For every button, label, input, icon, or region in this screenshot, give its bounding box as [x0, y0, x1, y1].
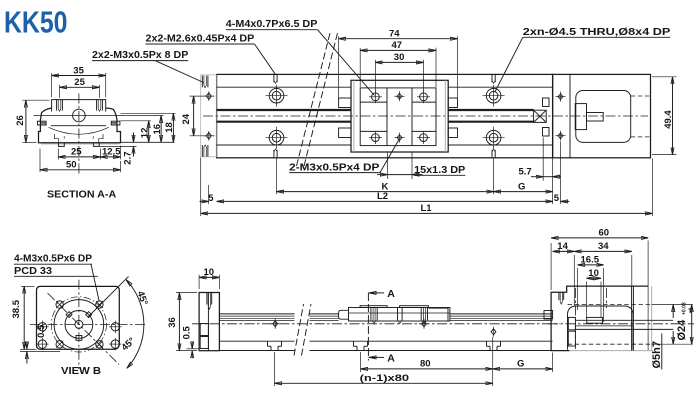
bolt hole TL	[56, 301, 63, 308]
M4 hole top-right	[417, 90, 430, 103]
svg-text:74: 74	[389, 29, 400, 40]
svg-text:38.5: 38.5	[11, 299, 22, 318]
svg-text:16: 16	[152, 124, 163, 135]
svg-text:25: 25	[71, 147, 82, 158]
coupling block top	[568, 317, 575, 329]
label PCD 33	[14, 265, 98, 277]
centerline	[203, 115, 648, 117]
bearing tab bottom	[543, 128, 550, 137]
carriage profile	[339, 306, 450, 321]
svg-text:+0.03: +0.03	[682, 302, 688, 315]
label 2xn holes	[495, 26, 671, 92]
motor block outline	[551, 286, 648, 351]
dim G plan	[494, 181, 553, 192]
svg-text:L2: L2	[377, 191, 388, 202]
inner bore circle	[65, 311, 93, 339]
svg-text:+0: +0	[688, 308, 694, 314]
body outline	[217, 74, 553, 157]
carriage flared body	[39, 108, 121, 143]
side hole right	[109, 321, 121, 333]
dim 49.4	[652, 77, 677, 155]
label 2-M3 carriage	[289, 140, 399, 174]
side hole bottom-right	[109, 338, 121, 350]
dim 36	[167, 293, 197, 351]
svg-text:50: 50	[66, 160, 77, 171]
M2.6 tick top-left	[274, 74, 277, 83]
motor cavity	[568, 306, 634, 350]
svg-text:2.7: 2.7	[123, 151, 134, 164]
motor block	[553, 74, 651, 157]
svg-text:KK50: KK50	[4, 6, 68, 40]
horizontal centerline	[34, 115, 162, 117]
base bottom line	[219, 350, 294, 352]
bolt mark top	[556, 92, 566, 102]
tap left on plate	[57, 100, 63, 112]
motor phantom bottom	[569, 350, 653, 352]
svg-text:35: 35	[73, 65, 84, 76]
svg-text:A: A	[387, 353, 395, 365]
svg-text:2-M3x0.5Px4 DP: 2-M3x0.5Px4 DP	[289, 161, 379, 173]
svg-text:0.5: 0.5	[36, 324, 47, 338]
dim 34	[574, 241, 632, 286]
vertical centerline	[78, 94, 80, 175]
bolt centerline 2	[606, 288, 608, 308]
left end tap top	[202, 76, 208, 88]
ext lines bottom	[276, 159, 278, 195]
carriage side tab bottom-right	[448, 128, 457, 138]
dim 38.5	[11, 286, 35, 349]
svg-text:47: 47	[392, 40, 403, 51]
bolt mark side 1	[270, 319, 280, 329]
tap right on plate	[97, 100, 103, 112]
foot 3	[487, 341, 501, 350]
svg-text:30: 30	[394, 52, 405, 63]
center hole	[75, 320, 83, 328]
dim 2.7	[99, 133, 136, 165]
svg-text:60: 60	[599, 228, 610, 239]
foot 2	[354, 341, 368, 350]
dim 5.7	[519, 138, 562, 181]
dim L2	[217, 191, 553, 202]
dim 74	[339, 29, 458, 98]
bolt hole BR	[96, 341, 103, 348]
dim 25 top	[60, 77, 100, 98]
foot 1	[268, 341, 282, 350]
motor flange lines	[631, 286, 633, 351]
svg-text:2x2-M2.6x0.45Px4 DP: 2x2-M2.6x0.45Px4 DP	[146, 33, 255, 45]
dim 16.5	[578, 255, 604, 322]
carriage sub lines	[360, 101, 387, 103]
bore notch right	[86, 312, 92, 318]
hole circle top-right	[483, 85, 505, 107]
svg-text:4-M3x0.5Px6 DP: 4-M3x0.5Px6 DP	[14, 253, 92, 265]
svg-text:0.5: 0.5	[181, 325, 192, 339]
motor block inner line	[569, 74, 571, 157]
M4 hole bottom-right	[417, 131, 430, 144]
bolt centerline	[574, 288, 576, 349]
block square bottom	[200, 337, 208, 349]
rail step right	[99, 134, 103, 143]
shaft block	[575, 104, 586, 130]
screw circle	[73, 109, 86, 122]
dim 0.5 viewb	[20, 324, 60, 364]
M2.6 tick bottom-right	[492, 149, 495, 158]
carriage top plate	[52, 100, 106, 112]
base gray surface	[41, 143, 120, 145]
diagonal centerline	[48, 293, 120, 365]
svg-text:80: 80	[420, 359, 431, 370]
svg-text:5.7: 5.7	[519, 167, 532, 178]
dim 30	[375, 52, 423, 91]
M4 hole bottom-left	[369, 131, 382, 144]
carriage screws side	[371, 308, 428, 324]
dims 12 16 18	[121, 113, 176, 142]
svg-text:SECTION A-A: SECTION A-A	[47, 189, 117, 201]
flange plate	[37, 286, 120, 349]
label 2x2-M3	[92, 49, 204, 82]
rail step left	[54, 134, 58, 143]
bolt mark bottom	[556, 131, 566, 141]
side ear right	[111, 121, 120, 125]
dim 12.5	[100, 146, 121, 160]
angle 45 arc	[126, 280, 144, 369]
coupling block bottom	[568, 331, 575, 346]
block inner line	[207, 293, 209, 351]
svg-text:24: 24	[181, 113, 192, 124]
svg-text:Ø5h7: Ø5h7	[651, 341, 663, 369]
motor phantom right	[651, 286, 653, 351]
section line A bottom	[368, 353, 395, 365]
svg-text:16.5: 16.5	[581, 255, 600, 266]
svg-text:12: 12	[140, 128, 151, 139]
hole circle bottom-left	[266, 127, 288, 149]
base foot left	[59, 143, 65, 147]
motor centerline	[548, 323, 694, 325]
dim 80	[361, 359, 493, 370]
body bottom line	[219, 340, 294, 342]
dim lines Ø24	[568, 302, 695, 344]
motor hidden lines	[631, 95, 651, 97]
left end tap bottom	[202, 145, 208, 157]
ballscrew upper edge	[217, 109, 351, 111]
svg-text:PCD 33: PCD 33	[14, 265, 52, 277]
section line A top	[368, 288, 395, 360]
dim 0.5 side	[181, 325, 198, 358]
dim Ø5h7	[651, 334, 663, 370]
dim 24	[181, 96, 206, 136]
dim K	[277, 181, 494, 192]
hole circle top-left	[266, 85, 288, 107]
pilot circle	[54, 300, 104, 350]
svg-text:15x1.3 DP: 15x1.3 DP	[414, 164, 465, 176]
svg-text:Ø24: Ø24	[676, 319, 688, 341]
dim 14	[553, 241, 575, 306]
svg-text:14: 14	[557, 241, 568, 252]
carriage divider right	[411, 88, 413, 146]
rail right end nub	[544, 311, 553, 320]
dim 50	[40, 149, 121, 173]
dim 26	[15, 100, 50, 142]
key slot rect	[587, 317, 603, 323]
dim 5 left	[200, 193, 215, 204]
dim 10 motor	[587, 268, 602, 318]
shaft stem	[587, 113, 604, 122]
carriage divider left	[386, 88, 388, 146]
base foot right	[93, 143, 99, 147]
label 2x2-M2.6	[146, 33, 276, 75]
svg-text:5: 5	[554, 193, 560, 204]
M3 mark carriage top	[395, 91, 405, 101]
M2.6 tick top-right	[492, 74, 495, 83]
side hole bottom-left	[36, 338, 48, 350]
svg-text:34: 34	[598, 241, 609, 252]
block tap	[207, 293, 212, 310]
dim 5 right	[554, 193, 570, 204]
bearing tab top	[543, 98, 550, 107]
svg-text:18: 18	[164, 122, 175, 133]
svg-text:A: A	[387, 288, 395, 300]
ballscrew lower edge	[217, 121, 351, 123]
svg-text:36: 36	[167, 317, 178, 328]
carriage inner plate	[360, 88, 436, 146]
dim 35	[52, 65, 106, 97]
carriage gray strips	[353, 80, 355, 152]
dim L1	[201, 203, 653, 214]
body inner line upper	[217, 86, 351, 88]
svg-text:12.5: 12.5	[102, 147, 121, 158]
svg-text:2x2-M3x0.5Px 8 DP: 2x2-M3x0.5Px 8 DP	[92, 49, 188, 61]
svg-text:G: G	[517, 359, 524, 370]
side ear left	[38, 121, 47, 125]
ext lines side dims	[274, 352, 276, 386]
side centerline	[192, 323, 560, 325]
block square top	[200, 324, 208, 336]
rail top lines	[219, 314, 552, 321]
svg-text:25: 25	[74, 77, 85, 88]
bolt hole TR	[96, 301, 103, 308]
bore key tab	[76, 336, 82, 341]
dim 60	[551, 228, 648, 350]
dim (n-1)x80	[275, 373, 493, 384]
carriage side tab top-right	[448, 98, 457, 108]
svg-text:26: 26	[15, 115, 26, 126]
svg-text:2xn-Ø4.5 THRU,Ø8x4 DP: 2xn-Ø4.5 THRU,Ø8x4 DP	[523, 26, 671, 38]
M3 mark carriage bottom	[395, 133, 405, 143]
svg-text:10: 10	[204, 267, 215, 278]
rail arc	[49, 127, 109, 134]
side hole left	[36, 321, 48, 333]
label 4-M3	[14, 253, 99, 302]
carriage outer	[351, 80, 448, 152]
base ref line	[121, 141, 175, 143]
dim G side	[493, 359, 553, 370]
M2.6 tick bottom-left	[274, 149, 277, 158]
svg-text:G: G	[518, 181, 525, 192]
svg-text:(n-1)x80: (n-1)x80	[360, 373, 410, 384]
dim 15x1.3	[377, 153, 465, 180]
dim 10	[199, 267, 219, 289]
horizontal centerline	[30, 323, 147, 325]
shaft lines	[575, 319, 633, 321]
label 4-M4	[226, 18, 375, 95]
svg-text:L1: L1	[421, 203, 433, 214]
M4 hole top-left	[369, 90, 382, 103]
block tap top	[559, 292, 564, 304]
bearing box	[534, 110, 547, 122]
carriage side tab bottom-left	[339, 128, 351, 138]
hole circle bottom-right	[483, 127, 505, 149]
vertical centerline	[78, 280, 80, 369]
motor body rounded	[576, 91, 631, 143]
carriage bottom edge	[51, 125, 106, 127]
svg-text:4-M4x0.7Px6.5 DP: 4-M4x0.7Px6.5 DP	[226, 18, 318, 30]
svg-text:VIEW B: VIEW B	[61, 365, 101, 377]
break lines	[297, 33, 338, 166]
dim 25 bottom	[58, 147, 100, 160]
PCD circle	[51, 297, 106, 352]
svg-text:10: 10	[588, 268, 599, 279]
left end cap phantom (gray)	[201, 75, 217, 157]
node mark left lower	[203, 131, 215, 141]
node mark left upper	[203, 91, 215, 101]
bore notch left	[66, 312, 72, 318]
dim 47	[360, 40, 436, 87]
angle 45 radius line upper	[88, 277, 129, 318]
left end block	[199, 293, 219, 351]
break lines side	[294, 304, 311, 356]
bolt mark side 3	[491, 327, 496, 337]
svg-text:49.4: 49.4	[663, 110, 674, 129]
carriage side tab top-left	[339, 98, 351, 108]
svg-text:5: 5	[208, 193, 214, 204]
bolt mark side 2	[419, 319, 429, 329]
body inner line lower	[217, 144, 351, 146]
bolt hole BL	[56, 341, 63, 348]
